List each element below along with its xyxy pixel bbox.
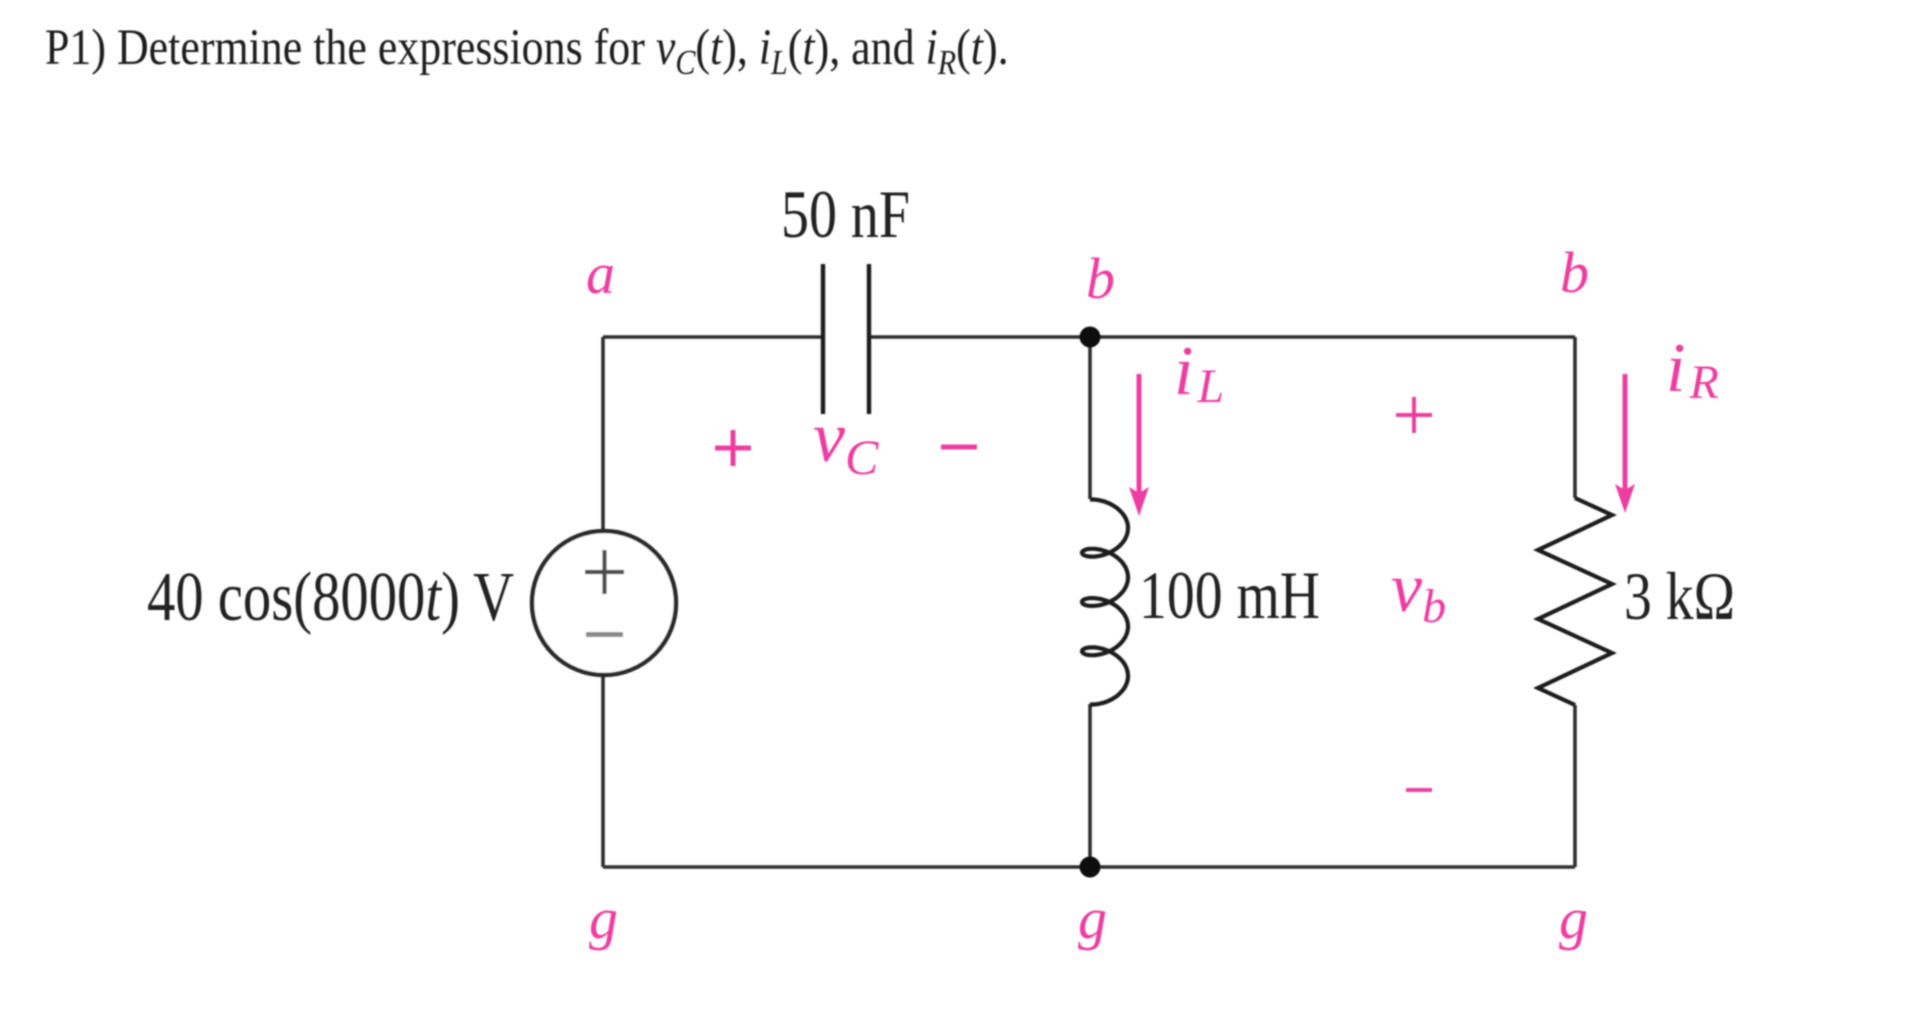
source plus sign	[585, 550, 624, 594]
junction dot node b (top)	[1080, 327, 1101, 348]
wire middle branch lower (inductor to ground rail)	[1088, 704, 1092, 867]
svg-text:50 nF: 50 nF	[781, 176, 910, 252]
voltage source VS circle	[532, 531, 676, 675]
inductor L coil	[1082, 500, 1128, 705]
wire top-left segment (node a to capacitor)	[603, 335, 823, 339]
svg-text:3 kΩ: 3 kΩ	[1624, 558, 1735, 634]
current arrow iR	[1623, 374, 1628, 490]
svg-text:a: a	[586, 241, 615, 306]
svg-text:100 mH: 100 mH	[1139, 557, 1320, 633]
wire top-right segment (node b to resistor branch)	[1090, 335, 1575, 339]
resistor R zigzag	[1538, 498, 1612, 705]
current arrow iL	[1137, 374, 1142, 493]
svg-text:b: b	[1086, 246, 1115, 311]
wire left branch upper	[601, 337, 605, 531]
source minus sign	[586, 632, 623, 637]
wire middle branch upper (node b to inductor)	[1088, 337, 1092, 499]
wire bottom (node g rail)	[603, 865, 1575, 869]
svg-text:iR: iR	[1666, 330, 1719, 409]
capacitor polarity minus	[941, 445, 977, 450]
svg-text:g: g	[1559, 886, 1588, 951]
wire top-middle segment (capacitor to node b)	[869, 335, 1090, 339]
wire left branch lower	[601, 675, 605, 867]
capacitor polarity plus	[715, 430, 751, 466]
value label 40 cos(8000t) V	[147, 557, 514, 635]
svg-text:P1) Determine the expressions: P1) Determine the expressions for vC(t),…	[45, 20, 1009, 83]
svg-text:iL: iL	[1174, 333, 1224, 413]
svg-text:g: g	[589, 886, 618, 951]
junction dot node g (bottom)	[1080, 857, 1101, 878]
voltage vb polarity plus	[1396, 397, 1432, 433]
capacitor C right plate	[867, 264, 871, 414]
svg-text:b: b	[1560, 240, 1589, 305]
capacitor C left plate	[821, 264, 825, 414]
svg-text:g: g	[1078, 886, 1107, 951]
voltage vb polarity minus	[1406, 788, 1432, 792]
svg-text:vb: vb	[1391, 550, 1446, 633]
wire right branch upper (node b to resistor)	[1573, 337, 1577, 498]
svg-text:40 cos(8000t) V: 40 cos(8000t) V	[147, 557, 514, 635]
wire right branch lower (resistor to ground rail)	[1573, 705, 1577, 867]
title text	[45, 20, 1009, 83]
